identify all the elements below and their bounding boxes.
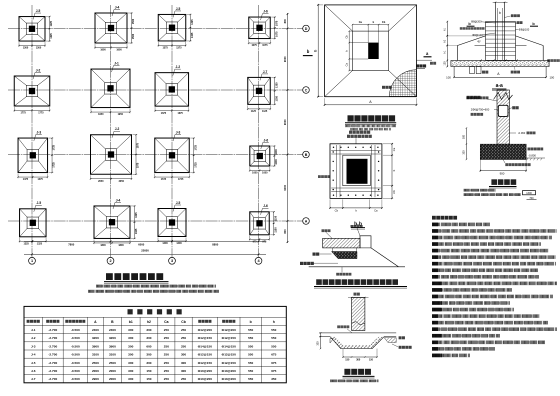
- svg-text:J-3: J-3: [31, 344, 36, 348]
- svg-text:Φ8@100: Φ8@100: [519, 28, 530, 32]
- svg-text:675: 675: [271, 353, 276, 357]
- svg-text:J-5: J-5: [31, 361, 36, 365]
- svg-text:Φ12@150: Φ12@150: [198, 353, 212, 357]
- svg-text:1075: 1075: [275, 20, 278, 26]
- svg-text:J-3: J-3: [176, 130, 181, 134]
- svg-text:-0.060: -0.060: [518, 131, 526, 135]
- svg-text:1400: 1400: [162, 242, 168, 245]
- svg-text:800: 800: [283, 19, 287, 24]
- svg-text:h2: h2: [147, 320, 151, 324]
- svg-text:2050: 2050: [119, 180, 125, 183]
- svg-text:550: 550: [248, 328, 253, 332]
- svg-text:550: 550: [248, 377, 253, 381]
- svg-text:900: 900: [500, 172, 505, 176]
- svg-text:1375: 1375: [162, 47, 168, 50]
- svg-text:1475: 1475: [23, 178, 29, 181]
- svg-text:Φ12@150: Φ12@150: [198, 336, 212, 340]
- svg-text:300: 300: [128, 336, 133, 340]
- svg-text:-0.500: -0.500: [71, 361, 80, 365]
- svg-text:b: b: [307, 49, 310, 54]
- svg-text:1325: 1325: [24, 242, 30, 245]
- svg-text:J-4: J-4: [115, 5, 120, 9]
- svg-text:Φ14@150: Φ14@150: [198, 344, 212, 348]
- svg-text:J-2: J-2: [115, 127, 120, 131]
- svg-text:1775: 1775: [38, 112, 44, 115]
- svg-text:300: 300: [128, 377, 133, 381]
- svg-text:-0.500: -0.500: [71, 344, 80, 348]
- svg-text:1725: 1725: [194, 144, 197, 150]
- svg-text:1725: 1725: [178, 178, 184, 181]
- svg-text:250: 250: [164, 344, 169, 348]
- svg-text:550: 550: [248, 369, 253, 373]
- svg-text:1400: 1400: [176, 242, 182, 245]
- svg-text:1800: 1800: [118, 244, 124, 247]
- svg-text:2500: 2500: [92, 361, 99, 365]
- svg-text:Cb: Cb: [335, 209, 339, 213]
- svg-text:3200: 3200: [109, 336, 116, 340]
- svg-text:2400: 2400: [109, 328, 116, 332]
- svg-text:Φ10@200: Φ10@200: [198, 369, 212, 373]
- svg-text:2: 2: [109, 259, 111, 263]
- svg-text:1775: 1775: [20, 112, 26, 115]
- svg-text:Ca: Ca: [392, 147, 396, 151]
- svg-text:550: 550: [248, 361, 253, 365]
- svg-text:Φ8@200: Φ8@200: [471, 20, 482, 24]
- svg-text:150: 150: [369, 358, 374, 361]
- svg-text:300: 300: [128, 353, 133, 357]
- svg-text:1725: 1725: [161, 178, 167, 181]
- svg-text:-0.500: -0.500: [71, 377, 80, 381]
- svg-text:1625: 1625: [135, 228, 138, 234]
- svg-text:1975: 1975: [137, 142, 140, 148]
- svg-text:1675: 1675: [178, 112, 184, 115]
- svg-text:975: 975: [253, 240, 258, 243]
- svg-text:2050: 2050: [98, 180, 104, 183]
- svg-text:J-7: J-7: [263, 70, 268, 74]
- svg-text:D: D: [305, 27, 308, 31]
- svg-text:J-4: J-4: [31, 353, 36, 357]
- svg-text:b: b: [250, 320, 252, 324]
- svg-text:300: 300: [463, 150, 466, 155]
- svg-text:1000: 1000: [252, 172, 258, 175]
- svg-text:-0.500: -0.500: [71, 353, 80, 357]
- svg-text:1950: 1950: [118, 113, 124, 116]
- svg-text:1225: 1225: [50, 20, 53, 26]
- svg-text:1500: 1500: [132, 33, 135, 39]
- svg-text:-0.800: -0.800: [528, 153, 536, 157]
- svg-text:9000: 9000: [283, 119, 287, 125]
- svg-text:1725: 1725: [194, 162, 197, 168]
- svg-text:J-1: J-1: [114, 61, 119, 65]
- svg-text:100: 100: [444, 61, 447, 66]
- svg-text:Φ12@150: Φ12@150: [222, 336, 236, 340]
- svg-text:300: 300: [146, 328, 151, 332]
- svg-text:Φ12@150: Φ12@150: [222, 361, 236, 365]
- svg-text:100: 100: [446, 76, 451, 80]
- svg-text:300: 300: [146, 361, 151, 365]
- svg-text:1: 1: [31, 259, 33, 263]
- svg-text:975: 975: [262, 240, 267, 243]
- svg-text:Φ12@150: Φ12@150: [198, 361, 212, 365]
- svg-text:300: 300: [181, 369, 186, 373]
- svg-text:J-3: J-3: [36, 130, 41, 134]
- svg-text:1350: 1350: [275, 95, 278, 101]
- svg-text:-2.700: -2.700: [48, 369, 57, 373]
- svg-text:3900: 3900: [92, 344, 99, 348]
- svg-text:A: A: [305, 219, 308, 223]
- svg-text:Φ8@100: Φ8@100: [472, 33, 483, 37]
- svg-text:550: 550: [248, 336, 253, 340]
- svg-text:b1: b1: [129, 320, 133, 324]
- svg-text:Φ10@200: Φ10@200: [198, 377, 212, 381]
- svg-text:J-5: J-5: [36, 201, 41, 205]
- svg-text:1950: 1950: [98, 113, 104, 116]
- svg-text:-0.500: -0.500: [71, 328, 80, 332]
- svg-text:550: 550: [271, 328, 276, 332]
- svg-text:7800: 7800: [68, 242, 74, 246]
- svg-text:675: 675: [271, 369, 276, 373]
- svg-text:J-6: J-6: [263, 9, 268, 13]
- svg-text:J-2: J-2: [175, 65, 180, 69]
- svg-text:a-a: a-a: [496, 83, 503, 89]
- svg-text:22600: 22600: [141, 249, 149, 253]
- svg-text:300: 300: [146, 336, 151, 340]
- svg-text:300: 300: [181, 361, 186, 365]
- svg-text:45°: 45°: [477, 41, 481, 44]
- svg-text:J-6: J-6: [263, 204, 268, 208]
- svg-text:1725: 1725: [53, 144, 56, 150]
- svg-text:Φ12@200: Φ12@200: [222, 328, 236, 332]
- svg-text:-2.700: -2.700: [48, 344, 57, 348]
- svg-text:150: 150: [146, 369, 151, 373]
- svg-text:250: 250: [181, 336, 186, 340]
- svg-text:550: 550: [248, 344, 253, 348]
- svg-text:3100: 3100: [92, 353, 99, 357]
- svg-text:1600: 1600: [100, 49, 106, 52]
- svg-text:1675: 1675: [161, 112, 167, 115]
- svg-text:Cb: Cb: [181, 320, 186, 324]
- svg-text:J-5: J-5: [36, 9, 41, 13]
- svg-text:h: h: [273, 320, 275, 324]
- svg-text:550: 550: [271, 344, 276, 348]
- svg-text:1150: 1150: [274, 215, 277, 221]
- svg-text:1475: 1475: [38, 178, 44, 181]
- svg-text:1000: 1000: [275, 159, 278, 165]
- svg-text:1350: 1350: [275, 82, 278, 88]
- svg-text:250: 250: [164, 328, 169, 332]
- svg-text:J-6: J-6: [263, 138, 268, 142]
- svg-text:3100: 3100: [109, 353, 116, 357]
- svg-text:-2.700: -2.700: [48, 328, 57, 332]
- svg-text:3900: 3900: [109, 344, 116, 348]
- svg-text:1125: 1125: [262, 110, 268, 113]
- svg-text:300: 300: [356, 358, 361, 361]
- svg-text:J-7: J-7: [31, 377, 36, 381]
- svg-text:300: 300: [128, 328, 133, 332]
- svg-text:1975: 1975: [137, 162, 140, 168]
- svg-text:8800: 8800: [212, 242, 218, 246]
- svg-text:2000: 2000: [109, 377, 116, 381]
- svg-text:Ca: Ca: [374, 209, 378, 213]
- svg-text:600: 600: [146, 344, 151, 348]
- svg-text:250: 250: [181, 328, 186, 332]
- svg-text:250: 250: [181, 377, 186, 381]
- svg-text:C: C: [305, 88, 308, 92]
- svg-text:675: 675: [271, 361, 276, 365]
- svg-text:J-2: J-2: [36, 68, 41, 72]
- svg-text:-2.700: -2.700: [48, 336, 57, 340]
- svg-text:Φ12@200: Φ12@200: [198, 328, 212, 332]
- svg-text:2900: 2900: [92, 377, 99, 381]
- svg-text:J-1: J-1: [31, 328, 36, 332]
- svg-text:500: 500: [463, 134, 466, 139]
- svg-text:300: 300: [128, 361, 133, 365]
- svg-text:1500: 1500: [132, 18, 135, 24]
- svg-text:1075: 1075: [262, 44, 268, 47]
- svg-text:1800: 1800: [100, 244, 106, 247]
- svg-text:2500: 2500: [109, 361, 116, 365]
- svg-text:1225: 1225: [50, 33, 53, 39]
- svg-text:550: 550: [271, 336, 276, 340]
- svg-text:2Φ6@750=600: 2Φ6@750=600: [471, 107, 490, 111]
- svg-text:-2.700: -2.700: [48, 377, 57, 381]
- svg-text:250: 250: [164, 336, 169, 340]
- svg-text:2400: 2400: [92, 328, 99, 332]
- svg-text:1325: 1325: [37, 242, 43, 245]
- svg-text:b: b: [499, 11, 501, 15]
- svg-text:Φ10@200: Φ10@200: [222, 377, 236, 381]
- svg-text:1125: 1125: [251, 110, 257, 113]
- svg-text:550: 550: [248, 353, 253, 357]
- svg-text:1325: 1325: [191, 32, 194, 38]
- svg-text:2000: 2000: [109, 369, 116, 373]
- svg-text:250: 250: [164, 377, 169, 381]
- svg-text:250: 250: [164, 353, 169, 357]
- svg-text:1325: 1325: [191, 19, 194, 25]
- svg-text:Cb: Cb: [392, 190, 396, 194]
- svg-text:1000: 1000: [262, 172, 268, 175]
- svg-text:Ca: Ca: [164, 320, 168, 324]
- svg-text:1725: 1725: [53, 162, 56, 168]
- svg-text:1150: 1150: [274, 227, 277, 233]
- svg-text:1075: 1075: [251, 44, 257, 47]
- svg-text:1300: 1300: [36, 47, 42, 50]
- svg-text:9000: 9000: [283, 56, 287, 62]
- svg-text:Φ10@200: Φ10@200: [222, 369, 236, 373]
- svg-text:100: 100: [549, 76, 554, 80]
- svg-text:250: 250: [181, 344, 186, 348]
- svg-text:150: 150: [146, 377, 151, 381]
- svg-text:B: B: [305, 153, 308, 157]
- svg-text:-0.500: -0.500: [71, 369, 80, 373]
- svg-text:350: 350: [271, 377, 276, 381]
- svg-text:1300: 1300: [23, 47, 29, 50]
- svg-text:-2.700: -2.700: [48, 353, 57, 357]
- svg-text:150: 150: [345, 358, 350, 361]
- svg-text:1600: 1600: [116, 49, 122, 52]
- svg-text:1375: 1375: [176, 47, 182, 50]
- svg-text:300: 300: [128, 344, 133, 348]
- svg-text:J-5: J-5: [176, 7, 181, 11]
- svg-text:-2.700: -2.700: [48, 361, 57, 365]
- svg-text:250: 250: [164, 361, 169, 365]
- svg-text:Cb: Cb: [382, 21, 386, 24]
- svg-text:Φ12@150: Φ12@150: [222, 353, 236, 357]
- svg-text:9000: 9000: [283, 184, 287, 190]
- svg-text:-0.500: -0.500: [71, 336, 80, 340]
- svg-text:J-2: J-2: [31, 336, 36, 340]
- svg-text:J-5: J-5: [176, 201, 181, 205]
- svg-text:250: 250: [164, 369, 169, 373]
- svg-text:Φ14@150: Φ14@150: [222, 344, 236, 348]
- svg-text:J-6: J-6: [31, 369, 36, 373]
- svg-text:1300: 1300: [526, 192, 532, 195]
- svg-text:3: 3: [171, 259, 173, 263]
- svg-text:1625: 1625: [135, 212, 138, 218]
- svg-text:2000: 2000: [92, 369, 99, 373]
- svg-text:300: 300: [146, 353, 151, 357]
- svg-text:300: 300: [317, 341, 320, 346]
- svg-text:1075: 1075: [275, 31, 278, 37]
- svg-text:300: 300: [181, 353, 186, 357]
- svg-text:800: 800: [283, 229, 287, 234]
- svg-text:6000: 6000: [138, 242, 144, 246]
- svg-text:J-4: J-4: [116, 198, 121, 202]
- svg-text:3200: 3200: [92, 336, 99, 340]
- svg-text:300: 300: [128, 369, 133, 373]
- svg-text:1000: 1000: [275, 149, 278, 155]
